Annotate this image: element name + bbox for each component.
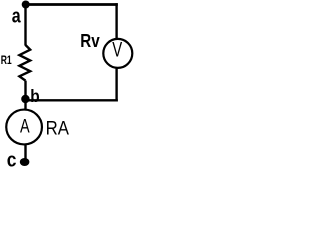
svg-text:R1: R1: [1, 55, 12, 68]
wire ammeter to c: [24, 145, 26, 162]
svg-text:b: b: [30, 86, 39, 106]
wire right upper (corner to voltmeter top): [115, 3, 117, 39]
svg-text:A: A: [20, 114, 30, 137]
wire left lower (resistor to b): [24, 81, 26, 100]
node a: [22, 1, 30, 9]
svg-text:a: a: [12, 5, 22, 27]
svg-text:c: c: [7, 149, 17, 171]
node b: [21, 95, 29, 103]
wire right lower (voltmeter bottom to corner): [115, 68, 117, 102]
wire top (a to top-right corner): [26, 3, 118, 6]
voltmeter U1 circle: [103, 39, 132, 68]
wire b to ammeter: [24, 99, 26, 110]
wire bottom (corner to node b): [26, 99, 118, 101]
svg-text:RA: RA: [46, 117, 70, 138]
resistor R1: [19, 45, 30, 81]
svg-text:V: V: [112, 38, 123, 61]
wire left upper (a to resistor): [24, 5, 26, 46]
ammeter U2 circle: [6, 110, 42, 145]
node c: [20, 158, 30, 166]
svg-text:Rv: Rv: [80, 31, 100, 52]
